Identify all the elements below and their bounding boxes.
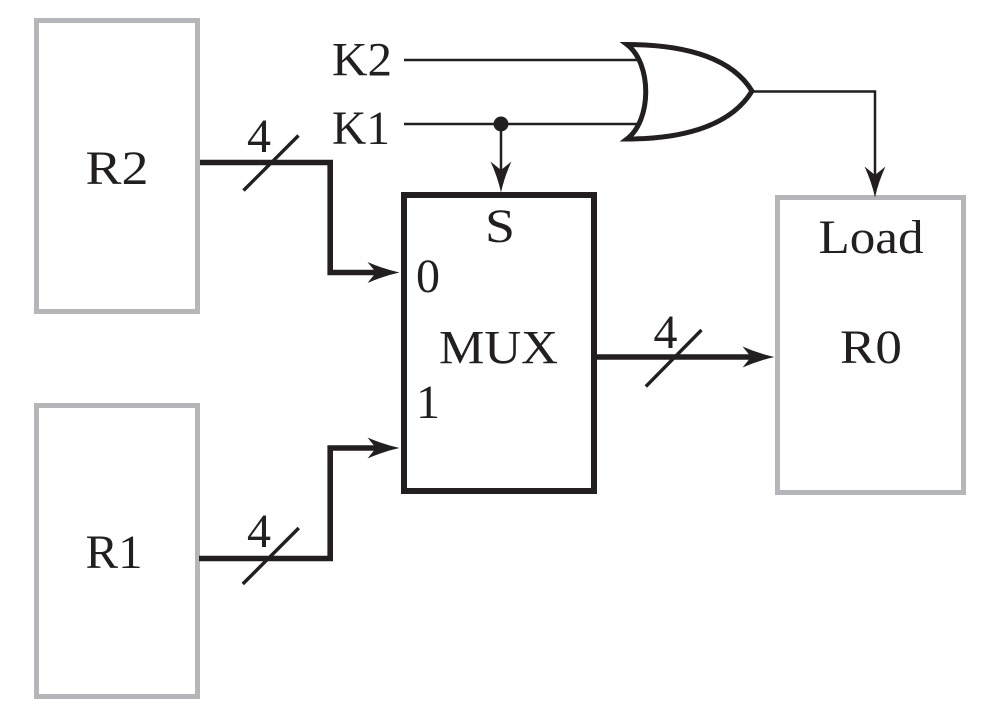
svg-text:R1: R1 (86, 526, 143, 579)
register R0 (Load) box (778, 198, 964, 493)
svg-text:4: 4 (247, 110, 271, 163)
node K2 label (332, 34, 392, 87)
wire: R2 output bus to MUX input 0 (200, 163, 400, 284)
wire: OR gate output to R0 Load input (752, 92, 886, 198)
bus width 4 label (R1 bus) (243, 505, 299, 584)
OR gate U1 (627, 45, 752, 140)
MUX box (404, 195, 594, 491)
wire: R1 output bus to MUX input 1 (199, 438, 400, 559)
junction dot on K1 wire (494, 117, 509, 132)
wire: K1 branch down to MUX select S (491, 124, 512, 193)
wire: MUX output bus to R0 (597, 347, 775, 368)
register R2 box (37, 21, 198, 312)
svg-text:0: 0 (416, 250, 440, 303)
svg-text:MUX: MUX (439, 322, 558, 375)
svg-text:Load: Load (819, 211, 924, 264)
svg-text:K1: K1 (332, 102, 390, 155)
svg-text:S: S (485, 200, 515, 253)
svg-text:R2: R2 (86, 142, 149, 195)
svg-text:1: 1 (416, 376, 440, 429)
bus width 4 label (MUX output) (646, 306, 702, 387)
node K1 label (332, 102, 390, 155)
wire: K1 to OR gate input (404, 123, 648, 126)
svg-text:4: 4 (654, 306, 678, 359)
bus width 4 label (R2 bus) (244, 110, 299, 191)
svg-text:R0: R0 (840, 321, 902, 374)
svg-text:K2: K2 (332, 34, 392, 87)
wire: K2 to OR gate input (404, 59, 648, 62)
register R1 box (37, 406, 198, 697)
svg-text:4: 4 (247, 505, 271, 558)
